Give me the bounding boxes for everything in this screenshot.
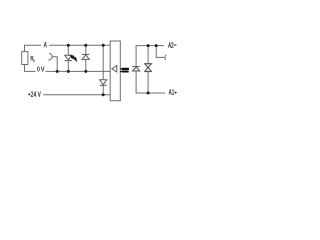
label A2- [168,42,176,47]
label 0 V [37,67,44,72]
diode D4 triangle [132,67,139,71]
diode D3 branch wire (crosses 0V rail) [102,45,104,80]
diode D2 cathode bar [82,53,89,55]
diode D3 cathode bar [100,84,107,86]
diode D3 bottom wire [102,85,104,95]
diode D4 cathode bar [132,66,140,68]
junction dot right rail x148 top [147,44,150,47]
contact stub: switch point wire down to 0V rail [52,57,57,72]
label R1 [31,56,35,62]
diode D2 branch wire top [85,45,87,54]
junction dot +24V rail x103 [102,93,105,96]
TVS branch wire bottom [147,72,149,93]
opto light arrow lower [121,71,128,72]
diode D2 branch wire bottom [85,59,87,71]
coupler box U1 [110,41,120,101]
junction dot 0V rail x57 [56,70,59,73]
contact arc (left, opening left) [48,53,52,60]
junction dot right rail x148 bottom [147,92,150,95]
wire: +24V rail to coupler box [43,94,110,96]
label A1+ [169,89,177,94]
junction dot A rail x103 [102,44,105,47]
TVS branch wire top [147,46,149,64]
diode D3 triangle [100,80,107,85]
TVS D5 top triangle [145,64,152,68]
diode D2 triangle [82,55,89,60]
wire: A rail right segment to coupler box [49,44,110,46]
LED D1 triangle [65,55,72,60]
wire: R1 bottom to 0V corner [25,65,36,72]
right bottom rail A1+ [136,71,165,93]
opto light arrow upper [121,68,128,69]
LED branch wire top [67,45,69,55]
label A [44,42,47,47]
LED light arrow 2 [73,56,75,59]
terminal stub A2 side [156,46,164,58]
terminal arc (right, opening right) [165,55,167,60]
wire: 0V rail right segment to coupler box [46,70,111,72]
junction dot 0V rail x86 [84,70,87,73]
junction dot A rail x68 [67,44,70,47]
amplifier triangle inside box [112,66,117,72]
TVS D5 top bar [144,63,151,65]
resistor R1 body [22,52,28,65]
junction dot A rail x86 [84,44,87,47]
TVS D5 center junction [147,67,149,69]
TVS D5 bottom triangle [145,68,152,72]
LED D1 cathode bar [65,60,72,62]
junction dot right rail x156 top [155,44,158,47]
TVS D5 bottom bar [144,71,151,73]
wire: A rail left segment with corner to R1 [25,45,42,52]
LED light arrow 1 [70,55,72,57]
junction dot 0V rail x68 [67,70,70,73]
label +24 V [28,92,41,97]
right top rail A2- [136,46,164,67]
LED branch wire bottom [67,61,69,72]
